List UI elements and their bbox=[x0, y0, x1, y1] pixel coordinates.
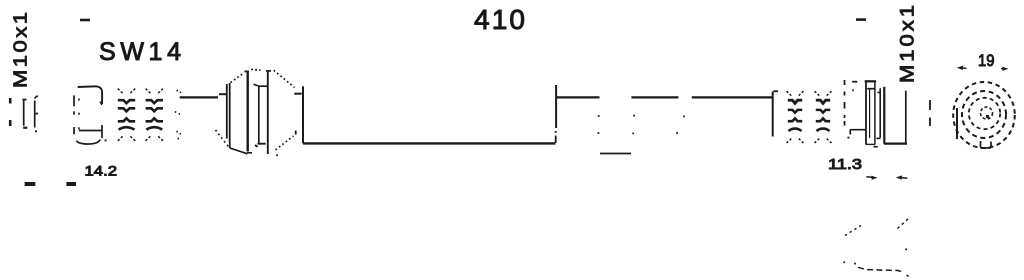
collar neck wall 1 bbox=[226, 84, 228, 139]
collar disc left edge bbox=[246, 71, 248, 152]
hose start vertical bbox=[302, 86, 304, 143]
spring guard coil column A bbox=[118, 89, 135, 141]
thread projection dashes bbox=[929, 100, 931, 126]
fitting top bracket remnant bbox=[852, 81, 857, 83]
end view center dot bbox=[986, 115, 989, 118]
dimension 11.3 left arrow bbox=[871, 176, 877, 180]
dimension tick left of 410 bbox=[80, 19, 90, 22]
fitting dashed edge bbox=[844, 80, 846, 126]
hose end tick right bbox=[772, 91, 774, 136]
fitting washer foot bbox=[874, 146, 878, 148]
thread crest 2 top hook bbox=[35, 96, 39, 98]
ghost outline dot lower 1 bbox=[843, 261, 845, 263]
dimension 11.3 right arrow bbox=[896, 175, 902, 179]
svg-text:19: 19 bbox=[978, 51, 995, 70]
dimension 11.3 right arrow tail bbox=[901, 177, 907, 180]
hose middle upper dots bbox=[598, 115, 685, 118]
spring guard coil column D bbox=[815, 91, 832, 143]
dimension tick right of 410 bbox=[856, 18, 866, 21]
hex nut skirt dot bbox=[105, 139, 107, 141]
collar neck wall 2 bbox=[229, 83, 231, 148]
hex nut right edge lower bbox=[101, 125, 103, 138]
dimension 19 left arrow bbox=[957, 66, 963, 70]
svg-text:14.2: 14.2 bbox=[85, 163, 118, 179]
hose top dashed line segment 1 bbox=[557, 96, 600, 98]
svg-text:11.3: 11.3 bbox=[828, 156, 862, 173]
end view circle 2 bbox=[962, 91, 1006, 138]
thread crest 2 bottom dot bbox=[35, 130, 37, 132]
fitting washer right edge bbox=[874, 82, 876, 145]
collar inner sleeve top bar bbox=[258, 85, 268, 87]
fitting bottom bracket bbox=[850, 130, 866, 135]
ghost outline slash 2 bbox=[898, 218, 910, 229]
hose middle lower segment bbox=[600, 153, 631, 155]
fitting body bottom bar bbox=[884, 143, 907, 145]
hex nut top facet bbox=[78, 86, 102, 104]
collar right cone bottom dotted bbox=[276, 136, 294, 150]
collar right cone top dotted bbox=[274, 70, 295, 87]
thread crest line 1 bbox=[23, 99, 25, 125]
hose top dashed line segment 2 bbox=[631, 96, 678, 98]
svg-text:M10x1: M10x1 bbox=[896, 5, 918, 83]
collar disc bottom edge bbox=[247, 152, 252, 154]
thread crest 2 middle tick bbox=[36, 113, 38, 115]
dimension 14.2 tick 2 bbox=[66, 182, 76, 186]
fitting bracket dot bbox=[852, 89, 854, 91]
spring guard coil column B bbox=[146, 89, 163, 141]
hose top step stub bbox=[294, 93, 301, 95]
hose break step lower dash bbox=[555, 136, 557, 144]
ghost outline bottom dashed bbox=[858, 267, 903, 272]
hex nut SW14 left dashed edge bbox=[73, 95, 75, 134]
fitting washer inner bar bbox=[867, 88, 874, 90]
collar inner sleeve top hook bbox=[254, 84, 258, 86]
spring guard coil column C bbox=[787, 91, 804, 143]
fitting washer top bar bbox=[865, 80, 876, 82]
collar disc right edge bbox=[267, 71, 269, 154]
collar disc top serif bbox=[244, 70, 249, 72]
hose end top stub bbox=[774, 90, 779, 92]
fitting washer bottom bar bbox=[866, 143, 875, 145]
svg-text:SW14: SW14 bbox=[99, 38, 181, 66]
fitting body left edge bbox=[883, 87, 885, 144]
end view small circle bbox=[981, 107, 993, 119]
collar left cone bottom dotted bbox=[216, 130, 230, 148]
ghost outline dot lower 2 bbox=[854, 263, 856, 265]
dimension 19 right arrow bbox=[1002, 67, 1008, 71]
hose bottom line bbox=[303, 142, 555, 144]
fitting sleeve bottom hook bbox=[876, 137, 880, 139]
collar left step stub bbox=[219, 93, 226, 95]
collar inner sleeve foot bbox=[255, 145, 258, 147]
hose middle lower dots bbox=[598, 132, 679, 134]
hose break step dot bbox=[555, 131, 557, 133]
hose top dashed line segment 3 bbox=[692, 96, 774, 98]
thread crest 1 bottom blob bbox=[23, 127, 27, 129]
collar inner sleeve left wall bbox=[258, 86, 260, 144]
thread crest line 2 bbox=[34, 101, 36, 128]
svg-text:410: 410 bbox=[474, 4, 525, 35]
fitting sleeve tick bbox=[878, 91, 880, 93]
end view outer circle bbox=[953, 82, 1015, 148]
fitting bracket lower dot bbox=[847, 137, 849, 139]
hex nut bottom facet bbox=[79, 130, 102, 132]
ghost outline dot right bbox=[905, 248, 907, 250]
dimension 19 left arrow tail bbox=[962, 67, 967, 69]
end view left flat bar bbox=[956, 108, 958, 139]
svg-text:M10x1: M10x1 bbox=[10, 12, 31, 88]
collar skirt slant bbox=[230, 148, 248, 154]
thread tip dashed edge bbox=[9, 98, 12, 126]
spring guard faded column dots bbox=[175, 91, 181, 139]
ghost outline bottom end dot bbox=[907, 275, 909, 276]
fitting body right edge bbox=[905, 91, 907, 144]
dimension 19 right arrow tail bbox=[1001, 68, 1004, 70]
dimension 11.3 left arrow tail bbox=[866, 176, 874, 179]
hex nut inner dashed edge bbox=[78, 99, 80, 130]
collar left cone top dotted bbox=[231, 74, 244, 83]
collar inner sleeve bottom bar bbox=[258, 143, 266, 145]
fitting washer left edge bbox=[865, 80, 867, 144]
hex nut skirt arc bbox=[77, 140, 101, 145]
fitting washer inner line bbox=[869, 89, 871, 138]
collar right bottom dot bbox=[276, 154, 278, 156]
collar disc top edge dots bbox=[251, 69, 261, 72]
collar disc right top serif bbox=[266, 70, 271, 72]
ghost outline slash 1 bbox=[845, 226, 861, 236]
end view circle 3 bbox=[969, 98, 1000, 129]
hex nut right inner mark bbox=[100, 102, 102, 105]
hose top line before collar bbox=[180, 96, 218, 98]
thread crest 1 top serif bbox=[22, 99, 26, 101]
dimension 14.2 tick 1 bbox=[25, 182, 36, 186]
fitting sleeve line bbox=[879, 88, 881, 137]
hose break step vertical bbox=[555, 85, 557, 128]
end view bottom tab bbox=[981, 141, 992, 148]
collar right lower dot bbox=[295, 131, 297, 135]
